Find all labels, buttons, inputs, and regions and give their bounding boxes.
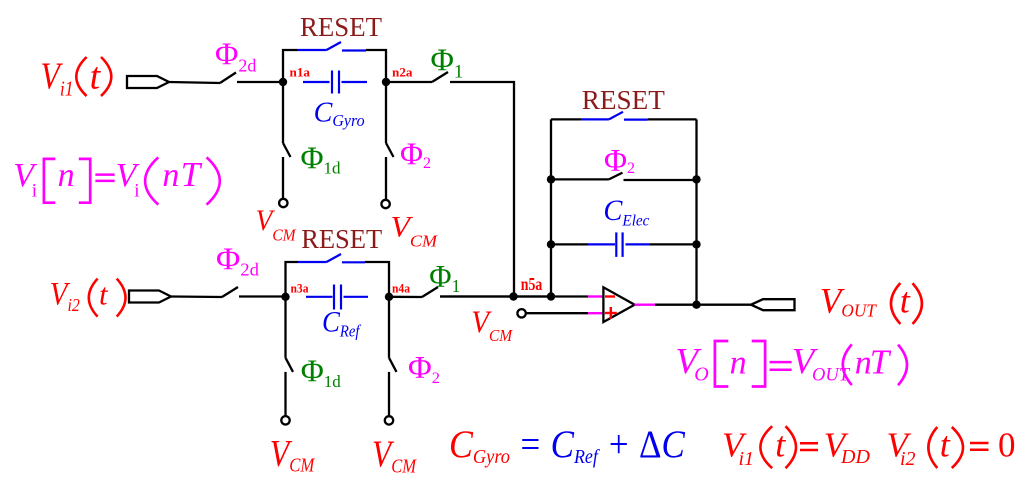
terminal circle V_CM mid	[517, 309, 525, 317]
svg-text:n: n	[730, 345, 747, 382]
svg-text:n: n	[162, 157, 179, 194]
node feedback cap left	[547, 240, 555, 248]
svg-text:i2: i2	[900, 448, 916, 470]
svg-text:T: T	[181, 155, 203, 194]
feedback right vertical wire	[695, 119, 697, 304]
capacitor C_Gyro	[303, 71, 367, 94]
node n3a	[281, 293, 289, 301]
svg-text:t: t	[99, 276, 109, 311]
terminal circle V_CM row2 left	[281, 416, 289, 424]
wire reset-branch right vertical row2	[365, 262, 389, 297]
wire magenta noninverting lead	[588, 312, 604, 314]
wire magenta output lead	[635, 304, 655, 306]
switch Φ1 row2	[389, 296, 422, 299]
node n5a	[509, 292, 517, 300]
wire	[171, 295, 222, 298]
svg-text:DD: DD	[840, 446, 870, 468]
wire noninverting	[526, 312, 588, 314]
capacitor C_Elec	[551, 243, 588, 245]
node output	[692, 301, 700, 309]
node n2a	[382, 78, 390, 86]
formula V_i[n]=V_i(nT)	[13, 155, 220, 205]
terminal circle V_CM row1 right	[381, 200, 389, 208]
svg-text:n1a: n1a	[290, 65, 311, 80]
formula V_i2(t)=0	[887, 425, 1016, 470]
switch RESET row2 (blue)	[298, 254, 365, 262]
svg-text:n3a: n3a	[291, 281, 309, 296]
svg-text:n5a: n5a	[521, 274, 543, 294]
svg-text:t: t	[940, 425, 951, 465]
svg-text:t: t	[90, 56, 102, 98]
node at opamp inverting input	[547, 292, 555, 300]
svg-text:n2a: n2a	[392, 65, 413, 80]
wire row2 to op-amp	[440, 295, 588, 297]
wire	[169, 82, 220, 83]
wire reset-branch left vertical row2	[286, 262, 299, 297]
terminal circle V_CM row2 right	[385, 416, 393, 424]
wire	[237, 81, 283, 83]
svg-text:t: t	[775, 425, 786, 465]
switch Φ1 row1	[386, 81, 432, 83]
svg-text:t: t	[900, 281, 911, 321]
svg-text:= CRef + ΔC: = CRef + ΔC	[518, 423, 685, 468]
op-amp plus sign	[605, 312, 617, 314]
wire	[239, 295, 286, 297]
switch Φ2 row2 (vertical)	[388, 297, 390, 358]
node n4a	[385, 293, 393, 301]
wire row2 junction to n5a	[440, 295, 551, 297]
svg-text:0: 0	[998, 426, 1016, 465]
output terminal V_OUT	[751, 299, 795, 310]
switch Φ2d row2	[222, 287, 238, 297]
wire reset-branch right vertical row1	[366, 50, 386, 82]
switch Φ2 feedback	[551, 178, 609, 180]
terminal circle V_CM row1 left	[279, 199, 287, 207]
switch Φ1d row2 (vertical)	[284, 297, 286, 358]
formula V_O[n]=V_OUT(nT)	[675, 341, 907, 387]
switch Φ2d row1	[220, 73, 236, 84]
svg-text:n4a: n4a	[392, 281, 410, 296]
svg-text:O: O	[694, 363, 708, 385]
formula V_i1(t)=V_DD	[722, 425, 870, 470]
svg-text:i1: i1	[739, 448, 755, 470]
wire row1 to corner	[450, 82, 514, 297]
op-amp U1	[603, 287, 634, 322]
svg-text:T: T	[870, 343, 892, 382]
svg-text:RESET: RESET	[301, 223, 382, 254]
svg-text:n: n	[58, 157, 75, 194]
node feedback phi2 right	[692, 175, 700, 183]
op-amp minus sign	[605, 295, 615, 297]
node feedback cap right	[692, 240, 700, 248]
svg-text:i: i	[32, 180, 37, 201]
input terminal V_i1	[127, 76, 169, 88]
feedback left vertical wire	[550, 119, 552, 296]
switch Φ2 row1 (vertical)	[385, 82, 387, 143]
wire magenta inverting lead	[588, 295, 604, 297]
svg-text:RESET: RESET	[300, 11, 382, 42]
capacitor C_Ref	[306, 285, 368, 310]
node feedback phi2 left	[547, 175, 555, 183]
wire reset-branch left vertical row1	[283, 50, 297, 82]
svg-text:RESET: RESET	[582, 84, 665, 115]
switch RESET row1 (blue)	[297, 42, 366, 51]
feedback reset branch wires	[551, 118, 582, 120]
input terminal V_i2	[129, 291, 171, 303]
wire output	[655, 304, 751, 306]
switch Φ1d row1 (vertical)	[282, 82, 284, 143]
switch RESET feedback (blue)	[582, 112, 648, 120]
node n1a	[279, 78, 287, 86]
svg-text:i: i	[134, 180, 139, 201]
